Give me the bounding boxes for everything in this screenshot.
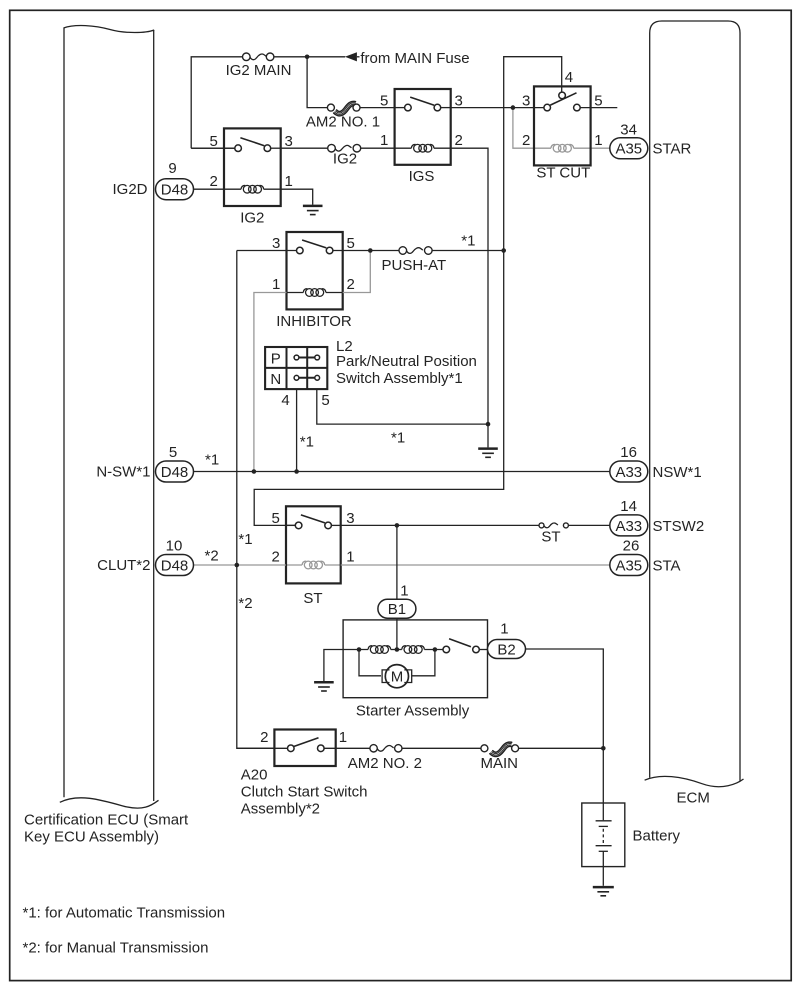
svg-text:Certification ECU (Smart: Certification ECU (Smart bbox=[24, 812, 189, 829]
connector A33 pin 14 STSW2 bbox=[610, 498, 704, 536]
fuse ST bbox=[539, 523, 568, 546]
svg-text:D48: D48 bbox=[161, 557, 189, 574]
relay INHIBITOR bbox=[237, 232, 399, 330]
junction node bbox=[486, 422, 491, 427]
wire B2 to battery net bbox=[526, 649, 604, 820]
wire PUSH-AT to net B bbox=[432, 250, 504, 252]
fusible link AM2 NO. 1 bbox=[306, 101, 380, 130]
svg-text:INHIBITOR: INHIBITOR bbox=[276, 313, 352, 330]
svg-text:4: 4 bbox=[565, 69, 573, 86]
svg-text:10: 10 bbox=[166, 537, 183, 554]
svg-text:2: 2 bbox=[209, 173, 217, 190]
svg-text:ST: ST bbox=[303, 590, 322, 607]
svg-text:A35: A35 bbox=[615, 141, 642, 158]
svg-text:3: 3 bbox=[455, 92, 463, 109]
wire IG2 pin5 feed (vertical from top wire) bbox=[191, 57, 242, 148]
svg-text:D48: D48 bbox=[161, 182, 189, 199]
svg-text:STA: STA bbox=[653, 557, 681, 574]
svg-text:34: 34 bbox=[620, 122, 637, 139]
svg-text:5: 5 bbox=[169, 444, 177, 461]
svg-text:ECM: ECM bbox=[677, 790, 710, 807]
wire MAIN link to battery net bbox=[519, 747, 604, 749]
svg-text:5: 5 bbox=[321, 392, 329, 409]
wire CLUT*2 row (gray) bbox=[194, 564, 287, 566]
wire L2 pin5 to ground net bbox=[317, 389, 488, 424]
wire to arrow bbox=[274, 56, 345, 58]
switch starter magnetic bbox=[443, 639, 488, 653]
svg-text:1: 1 bbox=[594, 132, 602, 149]
ground (park/neutral net) bbox=[478, 424, 498, 457]
wire ST pin1 to A35 STA (gray) bbox=[341, 564, 610, 566]
motor M starter bbox=[359, 650, 435, 688]
svg-text:A33: A33 bbox=[615, 518, 642, 535]
svg-text:B1: B1 bbox=[388, 601, 406, 618]
junction node bbox=[601, 746, 606, 751]
wire IGS pin3 to ST CUT pin3 and pin5 stub bbox=[451, 107, 544, 109]
svg-text:Assembly*2: Assembly*2 bbox=[241, 801, 320, 818]
svg-text:*2: *2 bbox=[205, 548, 219, 565]
svg-text:1: 1 bbox=[380, 132, 388, 149]
wire ST pin3 to ST fuse (STSW2 net) bbox=[341, 524, 539, 526]
svg-text:*1: *1 bbox=[238, 531, 252, 548]
wire INHIBITOR pin3 down to A20 bbox=[237, 251, 275, 749]
svg-text:AM2 NO. 1: AM2 NO. 1 bbox=[306, 114, 380, 131]
svg-text:2: 2 bbox=[522, 132, 530, 149]
wire coil to switch bbox=[424, 649, 443, 651]
wire ST fuse to A33 bbox=[568, 524, 609, 526]
svg-text:2: 2 bbox=[347, 276, 355, 293]
relay IGS bbox=[380, 89, 463, 185]
svg-text:PUSH-AT: PUSH-AT bbox=[382, 257, 447, 274]
svg-text:IG2D: IG2D bbox=[112, 181, 147, 198]
relay IG2 bbox=[191, 128, 293, 226]
fusible link MAIN bbox=[481, 742, 519, 772]
wire INHIBITOR pin1 (gray) down to N-SW node bbox=[254, 293, 287, 472]
wire B1 to starter coil bbox=[396, 618, 398, 649]
svg-text:N-SW*1: N-SW*1 bbox=[96, 464, 150, 481]
svg-text:2: 2 bbox=[271, 549, 279, 566]
connector B1 bbox=[378, 599, 416, 618]
coil starter hold-in bbox=[402, 646, 425, 654]
junction node bbox=[235, 563, 240, 568]
junction node bbox=[395, 523, 400, 528]
junction node bbox=[357, 647, 362, 652]
junction node bbox=[294, 469, 299, 474]
svg-text:NSW*1: NSW*1 bbox=[653, 464, 702, 481]
svg-text:*1: *1 bbox=[205, 452, 219, 469]
relay ST bbox=[271, 506, 354, 607]
svg-text:5: 5 bbox=[594, 92, 602, 109]
svg-text:*1: *1 bbox=[461, 233, 475, 250]
svg-text:*2: for Manual Transmission: *2: for Manual Transmission bbox=[23, 940, 209, 957]
fuse IG2 MAIN bbox=[226, 53, 292, 79]
wire D48 to IG2 coil bbox=[194, 188, 225, 190]
switch assembly L2 Park/Neutral Position bbox=[265, 338, 477, 409]
svg-text:Park/Neutral Position: Park/Neutral Position bbox=[336, 353, 477, 370]
connector D48 pin 5 N-SW*1 bbox=[96, 444, 219, 482]
svg-text:*1: *1 bbox=[391, 429, 405, 446]
junction node on net B bbox=[501, 248, 506, 253]
switch A20 clutch start bbox=[241, 729, 368, 818]
svg-text:1: 1 bbox=[285, 173, 293, 190]
connector A35 pin 34 STAR bbox=[610, 122, 692, 159]
svg-text:1: 1 bbox=[400, 583, 408, 600]
svg-text:3: 3 bbox=[346, 510, 354, 527]
wire between coils bbox=[391, 649, 402, 651]
fuse AM2 NO. 2 bbox=[348, 745, 422, 772]
connector B2 bbox=[488, 640, 526, 659]
wire IGS pin2 down (net A) bbox=[451, 148, 488, 424]
svg-text:5: 5 bbox=[271, 510, 279, 527]
ground (battery) bbox=[593, 887, 614, 896]
wire INHIBITOR pin2 (gray) up to PUSH-AT node bbox=[343, 251, 371, 293]
battery bbox=[582, 803, 681, 886]
svg-text:1: 1 bbox=[339, 729, 347, 746]
svg-text:1: 1 bbox=[272, 276, 280, 293]
svg-text:STAR: STAR bbox=[653, 141, 692, 158]
svg-text:CLUT*2: CLUT*2 bbox=[97, 557, 150, 574]
svg-text:3: 3 bbox=[285, 133, 293, 150]
svg-text:Key ECU Assembly): Key ECU Assembly) bbox=[24, 828, 159, 845]
svg-text:1: 1 bbox=[500, 621, 508, 638]
svg-text:from MAIN Fuse: from MAIN Fuse bbox=[360, 50, 469, 67]
svg-text:A33: A33 bbox=[615, 464, 642, 481]
svg-text:3: 3 bbox=[272, 235, 280, 252]
svg-text:Battery: Battery bbox=[633, 828, 681, 845]
svg-text:5: 5 bbox=[209, 133, 217, 150]
wire starter coil left to ground bbox=[324, 650, 368, 682]
svg-text:A20: A20 bbox=[241, 767, 268, 784]
svg-text:ST CUT: ST CUT bbox=[536, 165, 590, 182]
svg-text:MAIN: MAIN bbox=[481, 755, 519, 772]
svg-text:IGS: IGS bbox=[409, 168, 435, 185]
svg-text:26: 26 bbox=[623, 538, 640, 555]
svg-text:2: 2 bbox=[260, 729, 268, 746]
arrow from MAIN Fuse bbox=[345, 50, 470, 67]
svg-text:14: 14 bbox=[620, 498, 637, 515]
junction node bbox=[252, 469, 257, 474]
svg-text:16: 16 bbox=[620, 444, 637, 461]
svg-text:2: 2 bbox=[455, 132, 463, 149]
wire top node down to AM2 row bbox=[307, 57, 327, 108]
svg-text:D48: D48 bbox=[161, 464, 189, 481]
svg-text:B2: B2 bbox=[497, 642, 515, 659]
coil starter pull-in bbox=[368, 646, 391, 654]
wire AM2 fuse to IGS pin5 bbox=[360, 107, 395, 109]
ground (IG2 relay pin 1) bbox=[281, 189, 323, 214]
junction node bbox=[305, 55, 310, 60]
svg-text:AM2 NO. 2: AM2 NO. 2 bbox=[348, 755, 422, 772]
svg-text:Starter Assembly: Starter Assembly bbox=[356, 702, 470, 719]
junction node ST CUT coil tap bbox=[511, 105, 516, 110]
svg-text:IG2 MAIN: IG2 MAIN bbox=[226, 62, 292, 79]
wire N-SW row bbox=[194, 471, 610, 473]
svg-text:ST: ST bbox=[541, 528, 560, 545]
svg-text:*1: for Automatic Transmission: *1: for Automatic Transmission bbox=[23, 905, 226, 922]
svg-text:5: 5 bbox=[380, 92, 388, 109]
relay ST CUT bbox=[513, 69, 610, 182]
wire A20 row bbox=[237, 747, 288, 749]
svg-text:IG2: IG2 bbox=[333, 151, 357, 168]
wire fuse to MAIN link bbox=[402, 747, 481, 749]
svg-text:Clutch Start Switch: Clutch Start Switch bbox=[241, 784, 368, 801]
wire net B: PUSH-AT to ST CUT pin4 and down bbox=[254, 57, 562, 526]
ground (starter assembly) bbox=[314, 682, 334, 691]
svg-text:A35: A35 bbox=[615, 557, 642, 574]
svg-text:4: 4 bbox=[281, 392, 289, 409]
ECM box (right) bbox=[645, 21, 744, 807]
svg-text:*1: *1 bbox=[300, 434, 314, 451]
svg-text:5: 5 bbox=[347, 235, 355, 252]
Certification ECU bus (left) bbox=[24, 26, 189, 846]
svg-text:M: M bbox=[391, 669, 404, 686]
svg-text:1: 1 bbox=[346, 549, 354, 566]
svg-text:9: 9 bbox=[168, 160, 176, 177]
svg-text:STSW2: STSW2 bbox=[653, 518, 705, 535]
connector A35 pin 26 STA bbox=[610, 538, 681, 576]
connector D48 pin 9 IG2D bbox=[112, 160, 193, 200]
starter assembly box bbox=[343, 620, 487, 698]
connector A33 pin 16 NSW*1 bbox=[610, 444, 702, 482]
svg-text:3: 3 bbox=[522, 92, 530, 109]
junction node bbox=[395, 647, 400, 652]
svg-text:N: N bbox=[270, 371, 281, 388]
junction node bbox=[433, 647, 438, 652]
svg-text:IG2: IG2 bbox=[240, 210, 264, 227]
wire ST pin3 node down to B1 bbox=[396, 525, 398, 599]
fuse PUSH-AT bbox=[382, 247, 447, 274]
wire L2 pin4 down to N-SW row bbox=[296, 389, 298, 471]
connector D48 pin 10 CLUT*2 bbox=[97, 537, 219, 575]
svg-text:P: P bbox=[271, 350, 281, 367]
fuse IG2 bbox=[281, 144, 395, 167]
svg-text:*2: *2 bbox=[238, 595, 252, 612]
svg-text:Switch Assembly*1: Switch Assembly*1 bbox=[336, 370, 463, 387]
junction node bbox=[368, 248, 373, 253]
